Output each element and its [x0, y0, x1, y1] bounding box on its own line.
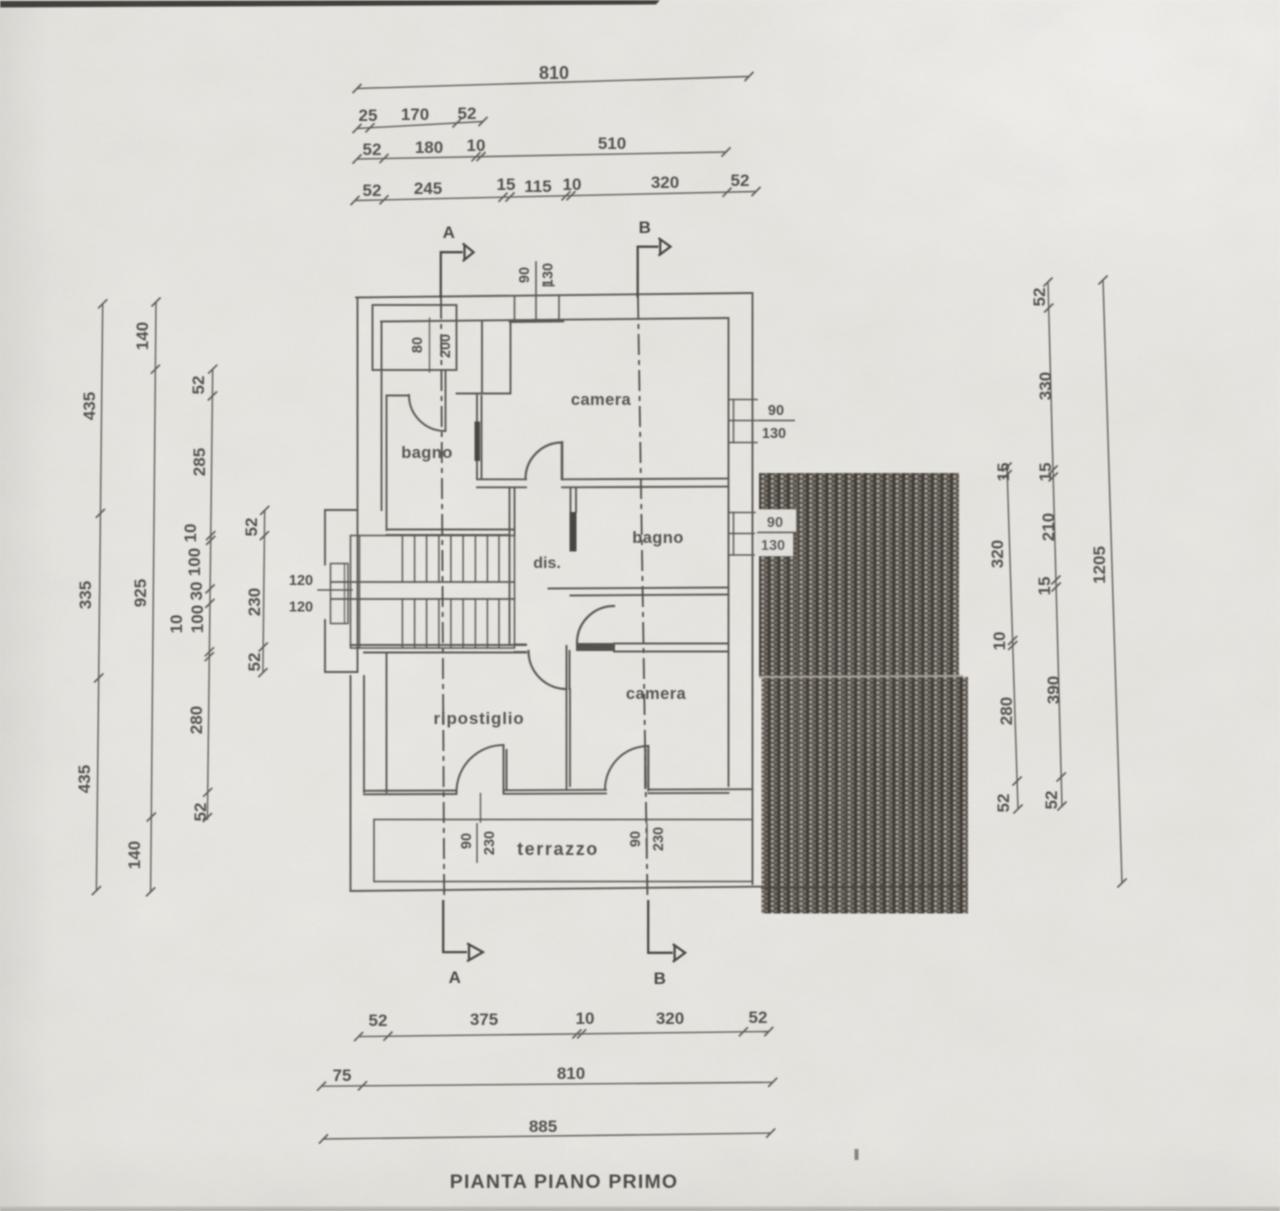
- window 120/120 left: [318, 564, 352, 624]
- dimension line 435-335-435 left: [92, 299, 108, 895]
- sill mark above top window: [543, 285, 554, 287]
- /DIMS: [401, 218, 686, 1193]
- wall top inner: [381, 318, 728, 322]
- terrace door left threshold: [480, 794, 482, 823]
- DIMS: [92, 72, 1127, 1144]
- window label 90/130 right lower on white: [755, 510, 796, 557]
- wall left inner upper: [381, 322, 383, 511]
- bottom page edge shade: [0, 1207, 1280, 1211]
- bagno left door arc: [409, 395, 445, 431]
- camera bottom top wall: [614, 644, 729, 652]
- ridge divider line in hatch: [759, 676, 963, 677]
- stairs treads: [402, 536, 499, 649]
- corridor niche wall top: [457, 322, 511, 394]
- camera top door arc: [526, 443, 563, 480]
- shaft box 80/200: [373, 305, 457, 370]
- stairs mid landing band: [331, 582, 515, 599]
- hatched roof area lower: [762, 677, 969, 914]
- terrace door left leaf: [504, 745, 507, 792]
- wall left outer lower: [350, 676, 352, 891]
- section line B dashed: [638, 298, 648, 900]
- camera top bottom wall: [477, 479, 729, 488]
- dimension line 52-245-15-115-10-320-52: [351, 187, 761, 205]
- dimension line 52-230-52 left: [258, 506, 269, 677]
- terrace door right arc: [605, 746, 648, 790]
- terrazzo outer bottom: [351, 874, 766, 891]
- bagno right bottom wall: [549, 588, 729, 596]
- camera bottom left wall: [567, 651, 571, 790]
- stray scan mark: [855, 1149, 859, 1160]
- hatch vertical seam lines: [797, 473, 799, 908]
- window label 120/120 left: [289, 573, 313, 616]
- dimension line 810 top: [353, 72, 754, 93]
- door label 90/230 right rotated: [628, 823, 667, 855]
- door label 90/230 left rotated: [459, 823, 498, 863]
- wall left inner lower: [363, 676, 365, 792]
- window 90/130 top: [510, 262, 563, 322]
- dimension line 52-375-10-320-52 bottom: [354, 1027, 773, 1041]
- ripostiglio top wall: [351, 645, 527, 653]
- wall top outer: [356, 293, 751, 298]
- section line A dashed: [441, 298, 444, 900]
- bagno left bottom wall: [387, 530, 515, 536]
- bagno right door jamb dark: [570, 512, 577, 552]
- bagno right left wall: [571, 489, 577, 513]
- camera top left wall: [477, 394, 482, 480]
- bagno left door jamb: [445, 370, 447, 431]
- section marker A bottom: [443, 900, 483, 961]
- stair bump top wall: [325, 509, 358, 511]
- section marker A top: [441, 243, 474, 298]
- dimension line 25-170-52: [353, 117, 488, 133]
- divider 80/200: [429, 318, 431, 372]
- bottom wall of bedrooms: [364, 789, 753, 794]
- corridor bottom wall: [515, 645, 527, 653]
- stair bump bottom wall: [325, 671, 358, 673]
- hatch lower horizontal seam: [761, 886, 966, 888]
- dimension line 52-180-10-510: [353, 147, 731, 163]
- camera bottom door arc: [577, 606, 614, 643]
- wall right outer: [752, 293, 754, 884]
- dimension line 140-925-140 left: [146, 298, 161, 897]
- window 90/130 right lower: [729, 513, 758, 556]
- camera top door leaf: [561, 443, 564, 480]
- stairs landing inner edge: [359, 536, 361, 649]
- dimension line 1205 right: [1098, 276, 1126, 888]
- hatched roof area upper: [759, 473, 959, 677]
- bagno left wall: [386, 396, 388, 531]
- ripostiglio door leaf: [567, 646, 570, 689]
- camera top door jamb dark: [475, 422, 481, 462]
- scan edge line top: [0, 0, 660, 8]
- section marker B top: [638, 238, 671, 298]
- dimension line 15-320-10-280-52 right: [1002, 463, 1022, 814]
- wall right inner: [728, 318, 730, 786]
- terrace door left arc: [457, 745, 504, 792]
- dimension line 52-285-10-100-30-100-10-280-52 left: [203, 365, 218, 822]
- camera bottom door leaf dark: [576, 643, 615, 651]
- terrace door right leaf: [645, 746, 648, 790]
- shaft label 80/200 rotated: [410, 334, 454, 358]
- dimension line 885 bottom: [319, 1129, 775, 1144]
- dimension line 75-810 bottom: [317, 1078, 777, 1091]
- dimension line 52-330-15-210-15-390-52 right: [1043, 278, 1066, 811]
- window 90/130 right upper: [729, 400, 758, 443]
- stairs outer box: [351, 536, 515, 649]
- stair bump outer wall: [324, 510, 326, 672]
- wall left outer upper: [357, 298, 359, 673]
- ripostiglio door arc: [529, 651, 567, 689]
- section marker B bottom: [648, 900, 685, 962]
- corridor left wall: [510, 489, 515, 644]
- window label 90/130 right upper: [758, 403, 795, 442]
- ripostiglio left wall: [386, 653, 388, 793]
- terrazzo inner rect: [374, 820, 753, 882]
- bagno left top wall: [387, 395, 410, 397]
- window label 90/130 top rotated: [517, 263, 557, 287]
